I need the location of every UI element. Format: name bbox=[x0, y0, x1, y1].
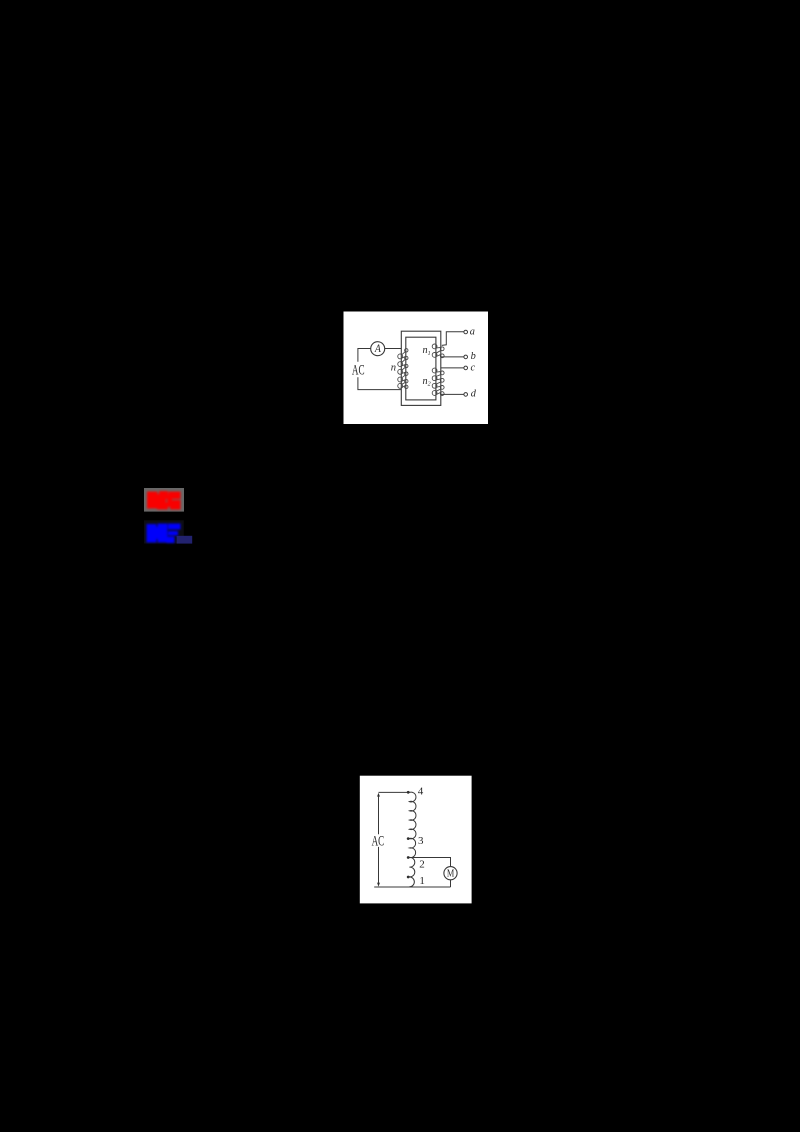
svg-text:AC: AC bbox=[352, 363, 365, 379]
svg-text:c: c bbox=[471, 362, 476, 373]
AC source arrow line top half bbox=[378, 795, 380, 835]
svg-text:a: a bbox=[470, 327, 475, 338]
ammeter U-A circle bbox=[371, 342, 385, 356]
wire to terminal b bbox=[441, 356, 464, 358]
svg-text:2: 2 bbox=[419, 858, 425, 870]
wire: motor bottom lead bbox=[450, 880, 452, 887]
secondary coil n1 bbox=[432, 344, 444, 358]
svg-text:A: A bbox=[374, 343, 381, 355]
wire: bottom rail bbox=[374, 886, 450, 888]
svg-text:3: 3 bbox=[418, 835, 424, 847]
junction dot tap 4 bbox=[407, 791, 410, 794]
wire: tap 2 to motor bbox=[409, 858, 450, 867]
svg-text:d: d bbox=[471, 388, 477, 399]
blue answer text blob bbox=[147, 524, 181, 544]
svg-text:4: 4 bbox=[418, 786, 424, 798]
AC arrowhead up bbox=[377, 793, 380, 797]
primary coil n bbox=[398, 349, 408, 389]
AC source arrow line bottom half bbox=[378, 847, 380, 884]
terminal b open circle bbox=[464, 355, 468, 359]
panel: figure 2 white background bbox=[360, 776, 472, 904]
panel: figure 1 white background bbox=[344, 312, 489, 425]
svg-text:b: b bbox=[471, 351, 476, 362]
wire: AC bottom left branch bbox=[358, 377, 402, 389]
autotransformer coil L1 bbox=[409, 792, 416, 887]
blue answer block background bbox=[144, 520, 184, 543]
svg-text:n: n bbox=[391, 363, 396, 374]
svg-text:1: 1 bbox=[419, 875, 425, 887]
wire to terminal a bbox=[442, 332, 464, 346]
wire to terminal d bbox=[441, 393, 464, 395]
svg-text:M: M bbox=[447, 868, 455, 879]
junction dot tap 2 bbox=[407, 856, 410, 859]
AC arrowhead down bbox=[377, 882, 380, 886]
red answer block background bbox=[144, 488, 184, 512]
terminal c open circle bbox=[464, 366, 468, 370]
secondary coil n2 bbox=[432, 368, 444, 395]
svg-text:AC: AC bbox=[372, 834, 385, 850]
junction dot tap 3 bbox=[407, 837, 410, 840]
wire: AC top to tap 4 bbox=[379, 791, 409, 793]
terminal d open circle bbox=[464, 393, 468, 397]
motor M circle bbox=[444, 867, 457, 880]
red answer text blob bbox=[147, 491, 181, 510]
transformer core T1 outer rectangle bbox=[401, 331, 441, 405]
transformer core T1 inner rectangle bbox=[406, 337, 436, 400]
wire to terminal c bbox=[441, 367, 464, 369]
wire: AC to ammeter (top left branch) bbox=[358, 349, 401, 362]
navy answer block extension bbox=[177, 536, 193, 544]
terminal a open circle bbox=[464, 330, 468, 334]
junction dot tap 1 bbox=[407, 876, 410, 879]
